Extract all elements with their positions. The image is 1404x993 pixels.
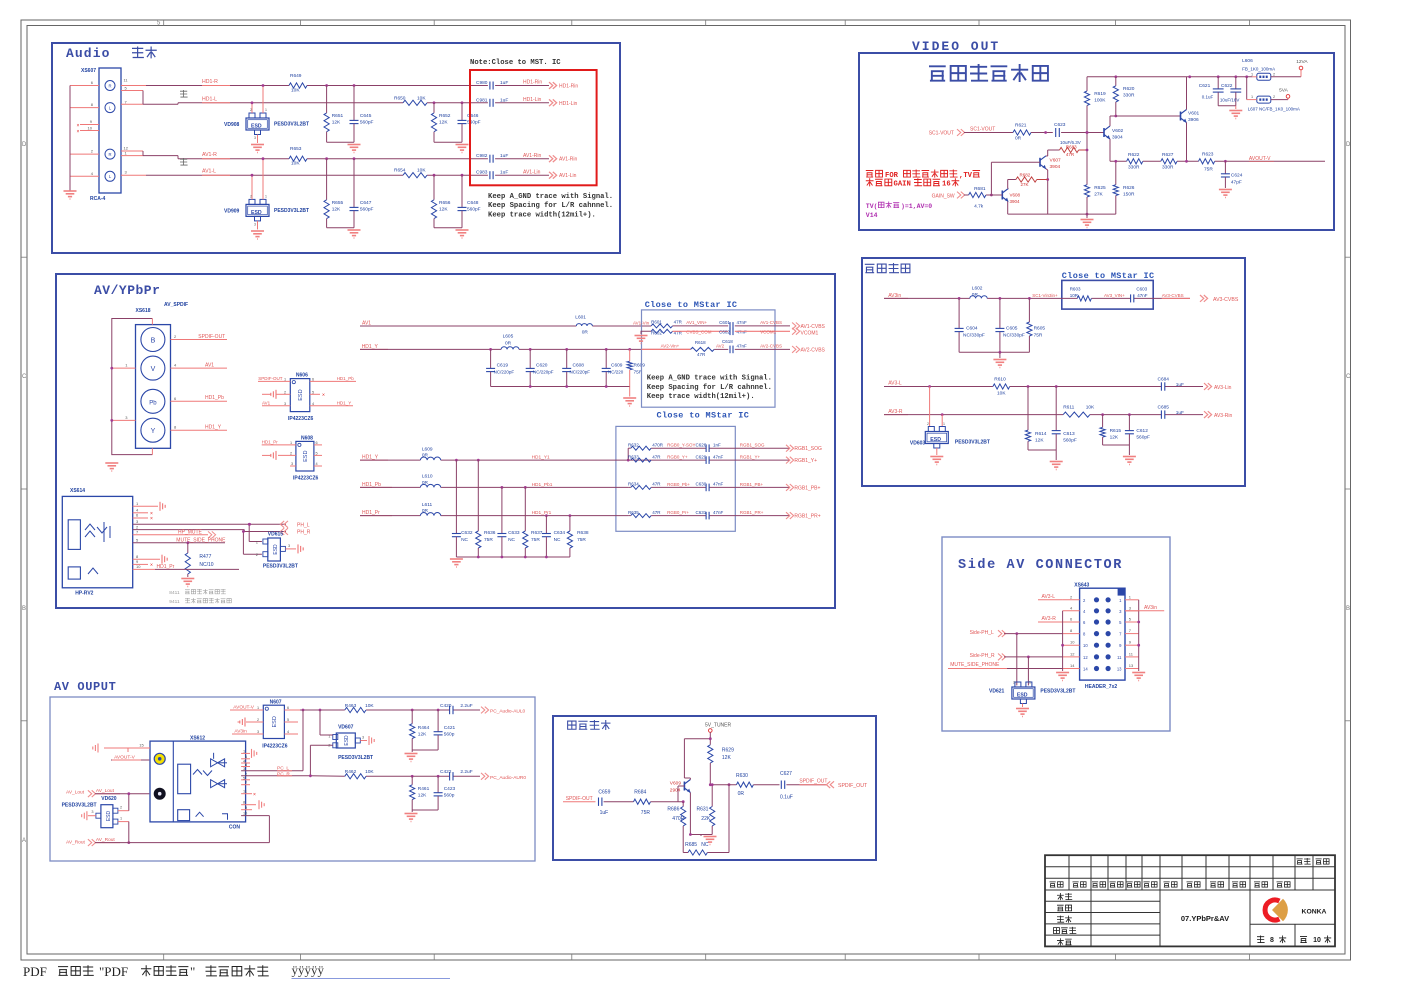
svg-text:150R: 150R xyxy=(1123,192,1135,198)
svg-text:ESD: ESD xyxy=(251,124,262,130)
svg-text:1uF: 1uF xyxy=(1176,382,1184,388)
video out adjust note CJK xyxy=(929,66,946,80)
V609 collector rail xyxy=(684,738,710,740)
ground for XS607 xyxy=(64,190,77,192)
Audio input section box xyxy=(52,43,620,253)
wire RGB SOG row xyxy=(628,447,631,449)
svg-text:1: 1 xyxy=(243,749,245,753)
svg-text:Note:Close to MST. IC: Note:Close to MST. IC xyxy=(470,59,561,67)
svg-text:R610: R610 xyxy=(994,377,1006,383)
svg-text:PESD3V3L2BT: PESD3V3L2BT xyxy=(955,440,990,446)
svg-text:)=1,AV=0: )=1,AV=0 xyxy=(901,203,932,210)
svg-text:R601: R601 xyxy=(651,320,662,325)
mstar box side xyxy=(1062,280,1153,309)
svg-text:B: B xyxy=(22,606,26,612)
svg-text:5: 5 xyxy=(243,776,245,780)
resistor R619 xyxy=(1086,77,1088,91)
wire RGB PR row xyxy=(628,515,631,517)
resistor R684 xyxy=(634,799,651,804)
gnd bus coax xyxy=(690,834,712,836)
svg-text:0R: 0R xyxy=(1015,136,1022,142)
XS614 pin9 nc xyxy=(133,563,148,565)
capacitor C648 shunt xyxy=(461,174,464,177)
svg-text:47nF: 47nF xyxy=(737,344,748,349)
svg-text:V602: V602 xyxy=(1112,128,1124,134)
svg-text:V: V xyxy=(151,366,156,373)
svg-text:330R: 330R xyxy=(1128,165,1140,171)
svg-text:2: 2 xyxy=(284,391,286,395)
svg-text:12K: 12K xyxy=(418,732,427,738)
capacitor C609 xyxy=(605,349,607,368)
svg-text:1: 1 xyxy=(265,194,267,198)
svg-text:14: 14 xyxy=(1083,667,1088,672)
resistor R611 xyxy=(1063,412,1090,417)
gnd bus lower filters xyxy=(456,556,570,558)
svg-text:R623: R623 xyxy=(1202,152,1214,158)
svg-text:R630: R630 xyxy=(736,773,748,779)
capacitor C613 xyxy=(1055,387,1057,431)
svg-text:75R: 75R xyxy=(641,810,651,816)
inductor L611 xyxy=(420,513,440,516)
svg-text:8411: 8411 xyxy=(169,590,180,596)
svg-text:10K: 10K xyxy=(1086,405,1095,411)
svg-text:NC/220pF: NC/220pF xyxy=(533,370,554,375)
svg-text:3: 3 xyxy=(288,544,290,548)
svg-text:NC: NC xyxy=(701,842,709,848)
svg-text:1: 1 xyxy=(1251,72,1253,76)
gnd bus side filter xyxy=(959,351,1029,353)
svg-text:Side-PH_R: Side-PH_R xyxy=(970,653,995,659)
capacitor C603 xyxy=(1130,294,1132,302)
svg-text:R634: R634 xyxy=(628,482,639,487)
resistor R621 xyxy=(1013,130,1031,135)
XS614 inner contacts xyxy=(68,520,80,550)
wire RGB PB row xyxy=(628,486,631,488)
svg-text:PH_R: PH_R xyxy=(297,530,311,536)
svg-text:Keep Spacing for L/R cahnnel.: Keep Spacing for L/R cahnnel. xyxy=(488,202,613,210)
svg-text:RGB0_Pr+: RGB0_Pr+ xyxy=(667,510,689,515)
svg-text:R461: R461 xyxy=(418,786,430,792)
capacitor C627 xyxy=(780,781,782,789)
svg-text:SC1-VOUT: SC1-VOUT xyxy=(929,131,954,137)
resistor R620 xyxy=(1115,77,1117,86)
svg-text:": " xyxy=(190,964,195,979)
svg-text:12K: 12K xyxy=(722,755,732,761)
title block row labels xyxy=(1053,893,1076,945)
svg-text:C613: C613 xyxy=(1063,431,1075,437)
svg-text:AV3-CVBS: AV3-CVBS xyxy=(1213,297,1239,303)
svg-text:47pF: 47pF xyxy=(1231,180,1242,186)
svg-text:C648: C648 xyxy=(467,200,479,206)
svg-text:PESD3V3L2BT: PESD3V3L2BT xyxy=(62,803,97,809)
svg-text:27K: 27K xyxy=(1021,182,1029,187)
svg-text:1uF: 1uF xyxy=(600,810,609,816)
svg-text:AV/YPbPr: AV/YPbPr xyxy=(94,283,160,298)
ground XS618 xyxy=(105,462,118,464)
svg-text:D: D xyxy=(22,142,27,148)
svg-text:XS614: XS614 xyxy=(70,488,85,494)
resistor R463 xyxy=(345,707,366,712)
capacitor C645 shunt xyxy=(353,84,356,87)
svg-text:9: 9 xyxy=(245,806,247,810)
svg-text:Side AV CONNECTOR: Side AV CONNECTOR xyxy=(958,558,1123,573)
esd VD603 xyxy=(929,387,931,427)
svg-text:8: 8 xyxy=(1270,937,1274,944)
svg-text:XS618: XS618 xyxy=(136,308,151,314)
svg-text:HD1_Y: HD1_Y xyxy=(337,400,352,405)
zone ticks top-bottom xyxy=(164,20,1250,960)
svg-text:R654: R654 xyxy=(394,168,406,174)
wire R621 to C623 xyxy=(1031,132,1053,134)
svg-text:AV2-CVBS: AV2-CVBS xyxy=(801,347,826,353)
svg-text:RGB0_Pb+: RGB0_Pb+ xyxy=(667,482,690,487)
svg-text:TV(: TV( xyxy=(866,203,878,210)
capacitor C622 xyxy=(1235,77,1237,89)
video out section box xyxy=(859,53,1334,230)
svg-text:ESD: ESD xyxy=(272,716,278,727)
svg-text:NC/220: NC/220 xyxy=(608,370,624,375)
svg-text:AV1-Lin: AV1-Lin xyxy=(559,173,577,179)
svg-text:R637: R637 xyxy=(531,530,543,536)
svg-text:R614: R614 xyxy=(1035,431,1047,437)
N606 pins right xyxy=(310,380,356,382)
svg-text:10: 10 xyxy=(88,126,93,131)
XS614 pin4 nc xyxy=(133,512,148,514)
svg-text:AV3in: AV3in xyxy=(1144,605,1157,611)
header inside pin numbers xyxy=(1083,598,1122,672)
svg-text:IP4223CZ6: IP4223CZ6 xyxy=(293,476,319,482)
esd VD908 xyxy=(246,118,269,130)
svg-text:3: 3 xyxy=(254,222,256,226)
svg-text:R655: R655 xyxy=(332,200,344,206)
svg-text:3904: 3904 xyxy=(1010,199,1021,204)
svg-text:R477: R477 xyxy=(199,554,211,560)
svg-text:2: 2 xyxy=(257,718,259,722)
svg-text:1uF: 1uF xyxy=(1176,410,1184,416)
resistor R461 xyxy=(411,776,413,785)
svg-text:HD1_Y: HD1_Y xyxy=(362,454,379,460)
svg-text:HD1_Pb: HD1_Pb xyxy=(205,395,224,401)
capacitor C618 xyxy=(729,346,731,354)
svg-text:GAIN: GAIN xyxy=(894,181,911,189)
svg-text:RGB1_Y+: RGB1_Y+ xyxy=(794,458,817,464)
svg-text:C619: C619 xyxy=(497,363,509,369)
svg-text:10: 10 xyxy=(1070,640,1075,645)
XS612 pins PC_L PC_R xyxy=(241,770,303,772)
gnd bus filters xyxy=(491,386,630,388)
svg-text:C618: C618 xyxy=(722,339,733,344)
svg-text:HP-RV2: HP-RV2 xyxy=(75,591,93,597)
svg-text:7: 7 xyxy=(245,781,247,785)
resistor R655 shunt xyxy=(325,157,328,160)
VD620 pin wires xyxy=(118,810,129,812)
side av section box xyxy=(942,537,1170,731)
XS612 bottom pins xyxy=(241,804,256,806)
svg-text:R632: R632 xyxy=(628,443,639,448)
svg-text:47nF: 47nF xyxy=(713,454,724,459)
svg-text:1: 1 xyxy=(1029,681,1031,685)
svg-text:Close to MStar IC: Close to MStar IC xyxy=(1062,271,1155,281)
svg-text:47R: 47R xyxy=(1066,152,1075,157)
svg-text:2904: 2904 xyxy=(670,788,681,794)
wire C659 to R684 xyxy=(604,801,634,803)
svg-text:C609: C609 xyxy=(611,363,623,369)
svg-text:AVOUT-V: AVOUT-V xyxy=(1249,156,1271,162)
svg-text:C630: C630 xyxy=(696,482,707,487)
svg-text:AV3-L: AV3-L xyxy=(888,381,902,387)
svg-text:C: C xyxy=(1346,374,1351,380)
top power rail xyxy=(1087,76,1252,78)
svg-text:×: × xyxy=(150,516,153,522)
svg-text:1: 1 xyxy=(257,706,259,710)
svg-text:C634: C634 xyxy=(554,530,566,536)
net AV3in side av xyxy=(1125,610,1140,612)
svg-text:3906: 3906 xyxy=(1188,117,1199,123)
svg-text:5V_TUNER: 5V_TUNER xyxy=(705,723,732,729)
svg-text:ESD: ESD xyxy=(106,810,112,821)
title block header labels xyxy=(1050,858,1330,887)
svg-text:3: 3 xyxy=(284,402,286,406)
svg-text:22K: 22K xyxy=(701,816,711,822)
svg-text:GAIN_SW: GAIN_SW xyxy=(932,194,955,200)
svg-text:AV1: AV1 xyxy=(205,363,214,369)
svg-text:3904: 3904 xyxy=(1112,135,1123,141)
svg-text:L602: L602 xyxy=(972,286,983,292)
svg-text:10K: 10K xyxy=(365,703,374,709)
wire HD1-L join xyxy=(121,90,143,92)
svg-text:NC/330pF: NC/330pF xyxy=(1003,333,1025,339)
svg-text:V601: V601 xyxy=(1188,111,1200,117)
capacitor C626 xyxy=(705,444,707,452)
V607 base wire xyxy=(991,161,1040,163)
svg-text:Keep Spacing for L/R cahnnel.: Keep Spacing for L/R cahnnel. xyxy=(647,384,772,392)
svg-text:L610: L610 xyxy=(422,474,433,480)
XS607 nc pins 9 10 xyxy=(80,124,99,126)
red warning text xyxy=(866,171,874,178)
svg-text:R626: R626 xyxy=(1123,185,1135,191)
header right stubs xyxy=(1125,594,1139,668)
svg-text:HD1-Lin: HD1-Lin xyxy=(559,101,578,107)
resistor R625 xyxy=(1084,185,1089,197)
transistor V602 xyxy=(1103,128,1105,137)
svg-text:2.2uF: 2.2uF xyxy=(460,703,472,709)
svg-text:R638: R638 xyxy=(577,530,589,536)
svg-text:R683: R683 xyxy=(1066,145,1077,150)
resistor R614 xyxy=(1027,387,1029,431)
resistor R629 xyxy=(708,745,713,763)
svg-text:AV1_VIN+: AV1_VIN+ xyxy=(686,320,707,325)
resistor R626 xyxy=(1115,161,1117,184)
svg-text:L609: L609 xyxy=(422,446,433,452)
svg-text:CON: CON xyxy=(229,825,241,831)
svg-text:ESD: ESD xyxy=(251,210,262,216)
svg-text:C647: C647 xyxy=(360,200,372,206)
svg-text:C627: C627 xyxy=(780,771,792,777)
svg-text:HD1_Pr1: HD1_Pr1 xyxy=(532,510,552,516)
capacitor C647 shunt xyxy=(353,157,356,160)
svg-text:L611: L611 xyxy=(422,502,433,508)
svg-text:C622: C622 xyxy=(1221,83,1233,89)
svg-text:C621: C621 xyxy=(1199,83,1211,89)
svg-text:Y: Y xyxy=(151,428,156,435)
svg-text:AV_SPDIF: AV_SPDIF xyxy=(164,302,188,308)
svg-text:07.YPbPr&AV: 07.YPbPr&AV xyxy=(1181,914,1229,923)
resistor R683 red xyxy=(1060,147,1079,152)
wire HD1-R xyxy=(121,85,146,87)
svg-text:,TV: ,TV xyxy=(959,172,973,180)
svg-text:Keep trace width(12mil+).: Keep trace width(12mil+). xyxy=(647,393,755,401)
svg-text:ESD: ESD xyxy=(1017,693,1028,699)
net AV3-Lin arrow xyxy=(1204,383,1208,390)
PDF watermark underline xyxy=(292,978,451,980)
svg-text:47nF: 47nF xyxy=(713,510,724,515)
resistor R685 NC xyxy=(688,850,707,855)
svg-text:10K: 10K xyxy=(417,168,426,174)
bottom ground bus video xyxy=(1008,213,1116,215)
svg-text:R602: R602 xyxy=(651,330,662,335)
svg-text:L605: L605 xyxy=(503,334,514,340)
svg-text:VD909: VD909 xyxy=(224,209,240,215)
N607 right pins xyxy=(284,709,300,711)
svg-text:330R: 330R xyxy=(1162,165,1174,171)
svg-text:13: 13 xyxy=(1117,667,1122,672)
svg-text:AV1-L: AV1-L xyxy=(202,169,216,175)
svg-text:14: 14 xyxy=(1070,663,1075,668)
capacitor C421 xyxy=(437,710,439,732)
svg-text:C645: C645 xyxy=(360,113,372,119)
header pin dots xyxy=(1094,597,1111,671)
svg-text:5: 5 xyxy=(312,391,314,395)
svg-text:×: × xyxy=(150,563,153,569)
capacitor C630 xyxy=(705,484,707,492)
XS618 circles BVPbY xyxy=(141,328,165,352)
svg-text:R615: R615 xyxy=(1110,428,1122,434)
V602 emitter wire xyxy=(1109,139,1111,161)
XS618 pin8 HD1_Y xyxy=(170,429,227,431)
XS614 pin8 gnd xyxy=(133,558,160,560)
XS612 black rca xyxy=(154,788,166,800)
mstar box 2 xyxy=(616,426,735,531)
svg-text:NC/220pF: NC/220pF xyxy=(494,370,515,375)
svg-text:1: 1 xyxy=(290,441,292,445)
svg-text:HP_MUTE: HP_MUTE xyxy=(178,529,203,535)
svg-text:KONKA: KONKA xyxy=(1302,909,1327,916)
svg-text:3: 3 xyxy=(291,462,293,466)
svg-text:N606: N606 xyxy=(296,373,308,379)
svg-text:0.1uF: 0.1uF xyxy=(780,795,793,801)
net PC_Audio-AUL0 xyxy=(481,707,485,714)
gnd R602 xyxy=(641,331,651,334)
svg-text:PC_Audio-AUR0: PC_Audio-AUR0 xyxy=(490,775,526,781)
svg-text:C620: C620 xyxy=(536,363,548,369)
svg-text:C604: C604 xyxy=(966,326,978,332)
svg-text:10K: 10K xyxy=(997,391,1006,397)
svg-text:AV2-Vin+: AV2-Vin+ xyxy=(661,344,680,349)
svg-text:HD1_Pb1: HD1_Pb1 xyxy=(532,482,553,488)
svg-text:4: 4 xyxy=(312,402,314,406)
svg-text:560pF: 560pF xyxy=(360,119,374,125)
resistor R603 xyxy=(1077,296,1091,301)
svg-text:PESD3V3L2BT: PESD3V3L2BT xyxy=(274,208,309,214)
capacitor C684 xyxy=(1160,382,1162,390)
svg-text:C632: C632 xyxy=(461,530,473,536)
XS612 pin 11 nc xyxy=(241,793,252,795)
wire MUTE_SIDE_PHONE pin5 xyxy=(133,542,188,544)
svg-text:C685: C685 xyxy=(1158,405,1170,411)
svg-text:C420: C420 xyxy=(440,703,452,709)
svg-text:1: 1 xyxy=(943,422,945,426)
N607 pin2 gnd xyxy=(246,721,263,723)
svg-text:1uF: 1uF xyxy=(500,80,508,86)
svg-text:R629: R629 xyxy=(722,748,734,754)
capacitor C621 xyxy=(1217,77,1219,89)
svg-text:RGB1_SOG: RGB1_SOG xyxy=(740,443,765,448)
svg-text:R621: R621 xyxy=(1015,123,1027,129)
svg-text:4: 4 xyxy=(287,730,289,734)
wire PH_R pin2 xyxy=(133,529,245,531)
svg-text:12K: 12K xyxy=(439,119,448,125)
svg-text:R682: R682 xyxy=(1020,173,1031,178)
svg-text:1: 1 xyxy=(120,817,122,821)
net PH_R arrow xyxy=(284,528,288,535)
XS618 pin4 AV1 xyxy=(170,367,227,369)
svg-text:"PDF: "PDF xyxy=(99,964,128,979)
coax out section box xyxy=(553,716,876,860)
svg-text:AV1-CVBS: AV1-CVBS xyxy=(801,324,826,330)
svg-text:10K: 10K xyxy=(365,769,374,775)
svg-text:470R: 470R xyxy=(652,443,664,448)
svg-text:VD621: VD621 xyxy=(989,689,1005,695)
svg-text:1: 1 xyxy=(284,378,286,382)
svg-text:RGB1_PB+: RGB1_PB+ xyxy=(794,485,820,491)
svg-text:ESD: ESD xyxy=(273,544,279,555)
capacitor C604 xyxy=(958,298,960,328)
svg-text:R686: R686 xyxy=(667,807,679,813)
inductor L610 xyxy=(420,484,440,487)
net PH_L arrow xyxy=(284,521,288,528)
svg-text:R625: R625 xyxy=(1094,185,1106,191)
transistor V607 xyxy=(1039,158,1041,167)
svg-text:HD1_Pb: HD1_Pb xyxy=(337,376,355,381)
svg-text:0R: 0R xyxy=(972,292,979,298)
svg-text:MUTE_SIDE_PHONE: MUTE_SIDE_PHONE xyxy=(950,662,1000,668)
svg-text:L607 NC/FB_1K0_100mA: L607 NC/FB_1K0_100mA xyxy=(1248,106,1300,111)
capacitor C624 xyxy=(1224,161,1226,173)
svg-text:6: 6 xyxy=(316,441,318,445)
resistor R464 xyxy=(411,710,413,724)
svg-text:R609: R609 xyxy=(634,363,646,369)
resistor R477 xyxy=(187,543,189,553)
svg-text:Side-PH_L: Side-PH_L xyxy=(970,630,994,636)
capacitor C423 xyxy=(437,776,439,792)
svg-text:12K: 12K xyxy=(332,119,341,125)
svg-text:0R: 0R xyxy=(422,508,429,514)
svg-text:5VA: 5VA xyxy=(1279,88,1289,94)
gnd R464 C421 xyxy=(412,749,438,751)
svg-text:12: 12 xyxy=(1070,651,1075,656)
svg-text:AV3-Lin: AV3-Lin xyxy=(1214,385,1232,391)
svg-text:6: 6 xyxy=(312,378,314,382)
svg-text:R463: R463 xyxy=(345,703,357,709)
svg-text:2: 2 xyxy=(250,108,252,112)
svg-text:R618: R618 xyxy=(695,340,706,345)
svg-text:12: 12 xyxy=(1083,655,1088,660)
svg-text:VCOM1: VCOM1 xyxy=(801,331,819,337)
svg-text:1uF: 1uF xyxy=(500,170,508,176)
svg-text:R635: R635 xyxy=(628,510,639,515)
side terminal title CJK xyxy=(865,264,875,272)
svg-text:HD1-Rin: HD1-Rin xyxy=(523,80,542,86)
